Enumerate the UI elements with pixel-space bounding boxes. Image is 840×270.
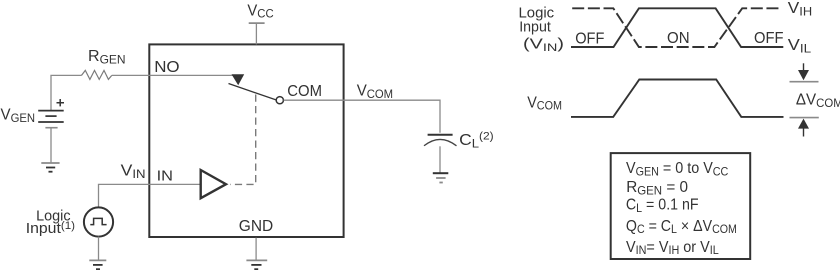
svg-text:RGEN = 0: RGEN = 0 [626,179,688,198]
Vcc power pin [249,23,265,44]
VCOM waveform [571,80,784,117]
logic waveform solid [571,8,783,47]
svg-text:RGEN: RGEN [88,48,126,66]
svg-text:CL = 0.1 nF: CL = 0.1 nF [626,196,699,215]
svg-text:CL(2): CL(2) [459,131,494,150]
conditions box [611,153,751,259]
IC body box U1 [149,44,343,237]
svg-text:GND: GND [239,218,273,235]
upper reference line [790,81,819,83]
svg-text:ON: ON [667,30,690,47]
svg-text:VCC: VCC [247,2,274,21]
svg-text:VIL: VIL [788,36,811,55]
svg-text:OFF: OFF [754,30,783,47]
lower reference line [790,117,819,119]
ground below logic input [89,260,106,269]
pulse glyph [90,218,106,224]
switch COM contact circle [276,97,283,104]
plus sign [57,99,65,106]
ground below capacitor [433,173,449,182]
svg-text:VGEN = 0 to VCC: VGEN = 0 to VCC [626,160,728,179]
delta arrow down [798,63,809,80]
wire VGEN to resistor [51,75,82,110]
svg-text:Input: Input [519,19,551,35]
buffer triangle [201,170,226,198]
battery VGEN [38,111,64,128]
svg-text:QC = CL × ΔVCOM: QC = CL × ΔVCOM [626,217,737,236]
capacitor CL curved plate [424,139,457,145]
svg-text:IN: IN [157,168,173,184]
wire COM to VCOM node [284,100,440,133]
svg-text:(VIN): (VIN) [523,35,564,54]
svg-text:COM: COM [287,82,322,100]
wire logic input to ground [98,237,100,260]
svg-text:VIH: VIH [788,0,812,18]
svg-text:VCOM: VCOM [527,94,562,113]
ground below GND [246,260,267,269]
svg-text:VCOM: VCOM [357,82,393,101]
delta arrow up [798,119,809,137]
wire resistor to NO [112,74,233,76]
logic waveform complement dashed [572,8,778,47]
svg-text:VIN: VIN [121,161,146,180]
wire GND pin to ground [255,238,257,260]
wire logic input to IN buffer [99,184,200,207]
wire capacitor to ground [439,146,441,172]
svg-text:OFF: OFF [575,30,604,48]
capacitor CL top plate [428,134,453,136]
switch bar [229,84,277,100]
svg-text:VGEN: VGEN [1,106,36,125]
svg-text:ΔVCOM: ΔVCOM [796,91,840,110]
switch arrowhead at NO [232,74,245,85]
svg-text:VIN= VIH or VIL: VIN= VIH or VIL [626,238,719,257]
resistor RGEN [82,70,112,79]
svg-text:Input(1): Input(1) [26,220,76,237]
wire battery to ground [50,128,52,163]
dashed switch control path [230,95,256,185]
svg-text:NO: NO [154,58,180,75]
ground below VGEN [41,163,59,172]
logic input source circle [84,207,113,236]
